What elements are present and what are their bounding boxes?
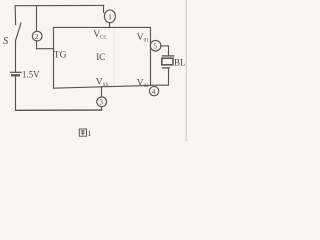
svg-text:IC: IC	[96, 52, 105, 62]
IC box U1	[54, 27, 151, 88]
svg-text:2: 2	[35, 33, 39, 41]
svg-text:4: 4	[152, 88, 156, 96]
svg-text:5: 5	[153, 43, 157, 51]
buzzer BL top plate	[162, 55, 173, 57]
wire pin2 down	[36, 41, 38, 49]
wire battery to bottom	[15, 76, 17, 110]
caption figure 1 glyph tu	[79, 129, 86, 136]
wire switch upper lead	[14, 6, 16, 25]
pin circle 3	[97, 97, 107, 107]
pin circle 4	[149, 86, 158, 95]
svg-text:1: 1	[108, 12, 112, 21]
wire pin5 to BL	[161, 46, 169, 56]
pin circle 1	[104, 10, 115, 23]
buzzer BL bottom plate	[162, 67, 169, 69]
wire pin1 to Vcc	[109, 23, 111, 28]
wire corner to pin 1	[103, 5, 105, 12]
wire bottom	[16, 109, 102, 111]
battery B1 short plate	[12, 74, 19, 76]
svg-text:VCC: VCC	[93, 30, 107, 41]
svg-text:3: 3	[100, 99, 104, 107]
svg-text:BL: BL	[174, 57, 186, 67]
svg-text:V02: V02	[137, 79, 149, 90]
wire TG	[37, 48, 54, 50]
battery B1 long plate	[10, 71, 21, 73]
pin circle 2	[32, 31, 42, 41]
svg-text:1: 1	[87, 128, 91, 138]
svg-text:TG: TG	[54, 50, 67, 60]
wire Vss stub	[101, 86, 103, 97]
switch S blade	[16, 23, 21, 40]
pin circle 5	[150, 40, 161, 51]
buzzer BL body	[162, 58, 173, 65]
wire BL down	[151, 68, 169, 85]
wire pin3 to bottom	[101, 107, 103, 111]
svg-text:S: S	[3, 36, 9, 47]
wire top	[15, 4, 104, 6]
wire switch to battery	[15, 40, 17, 71]
wire branch to pin 2	[36, 6, 38, 32]
svg-text:1.5V: 1.5V	[22, 69, 40, 79]
svg-text:V01: V01	[137, 33, 149, 44]
svg-text:VSS: VSS	[96, 77, 109, 88]
